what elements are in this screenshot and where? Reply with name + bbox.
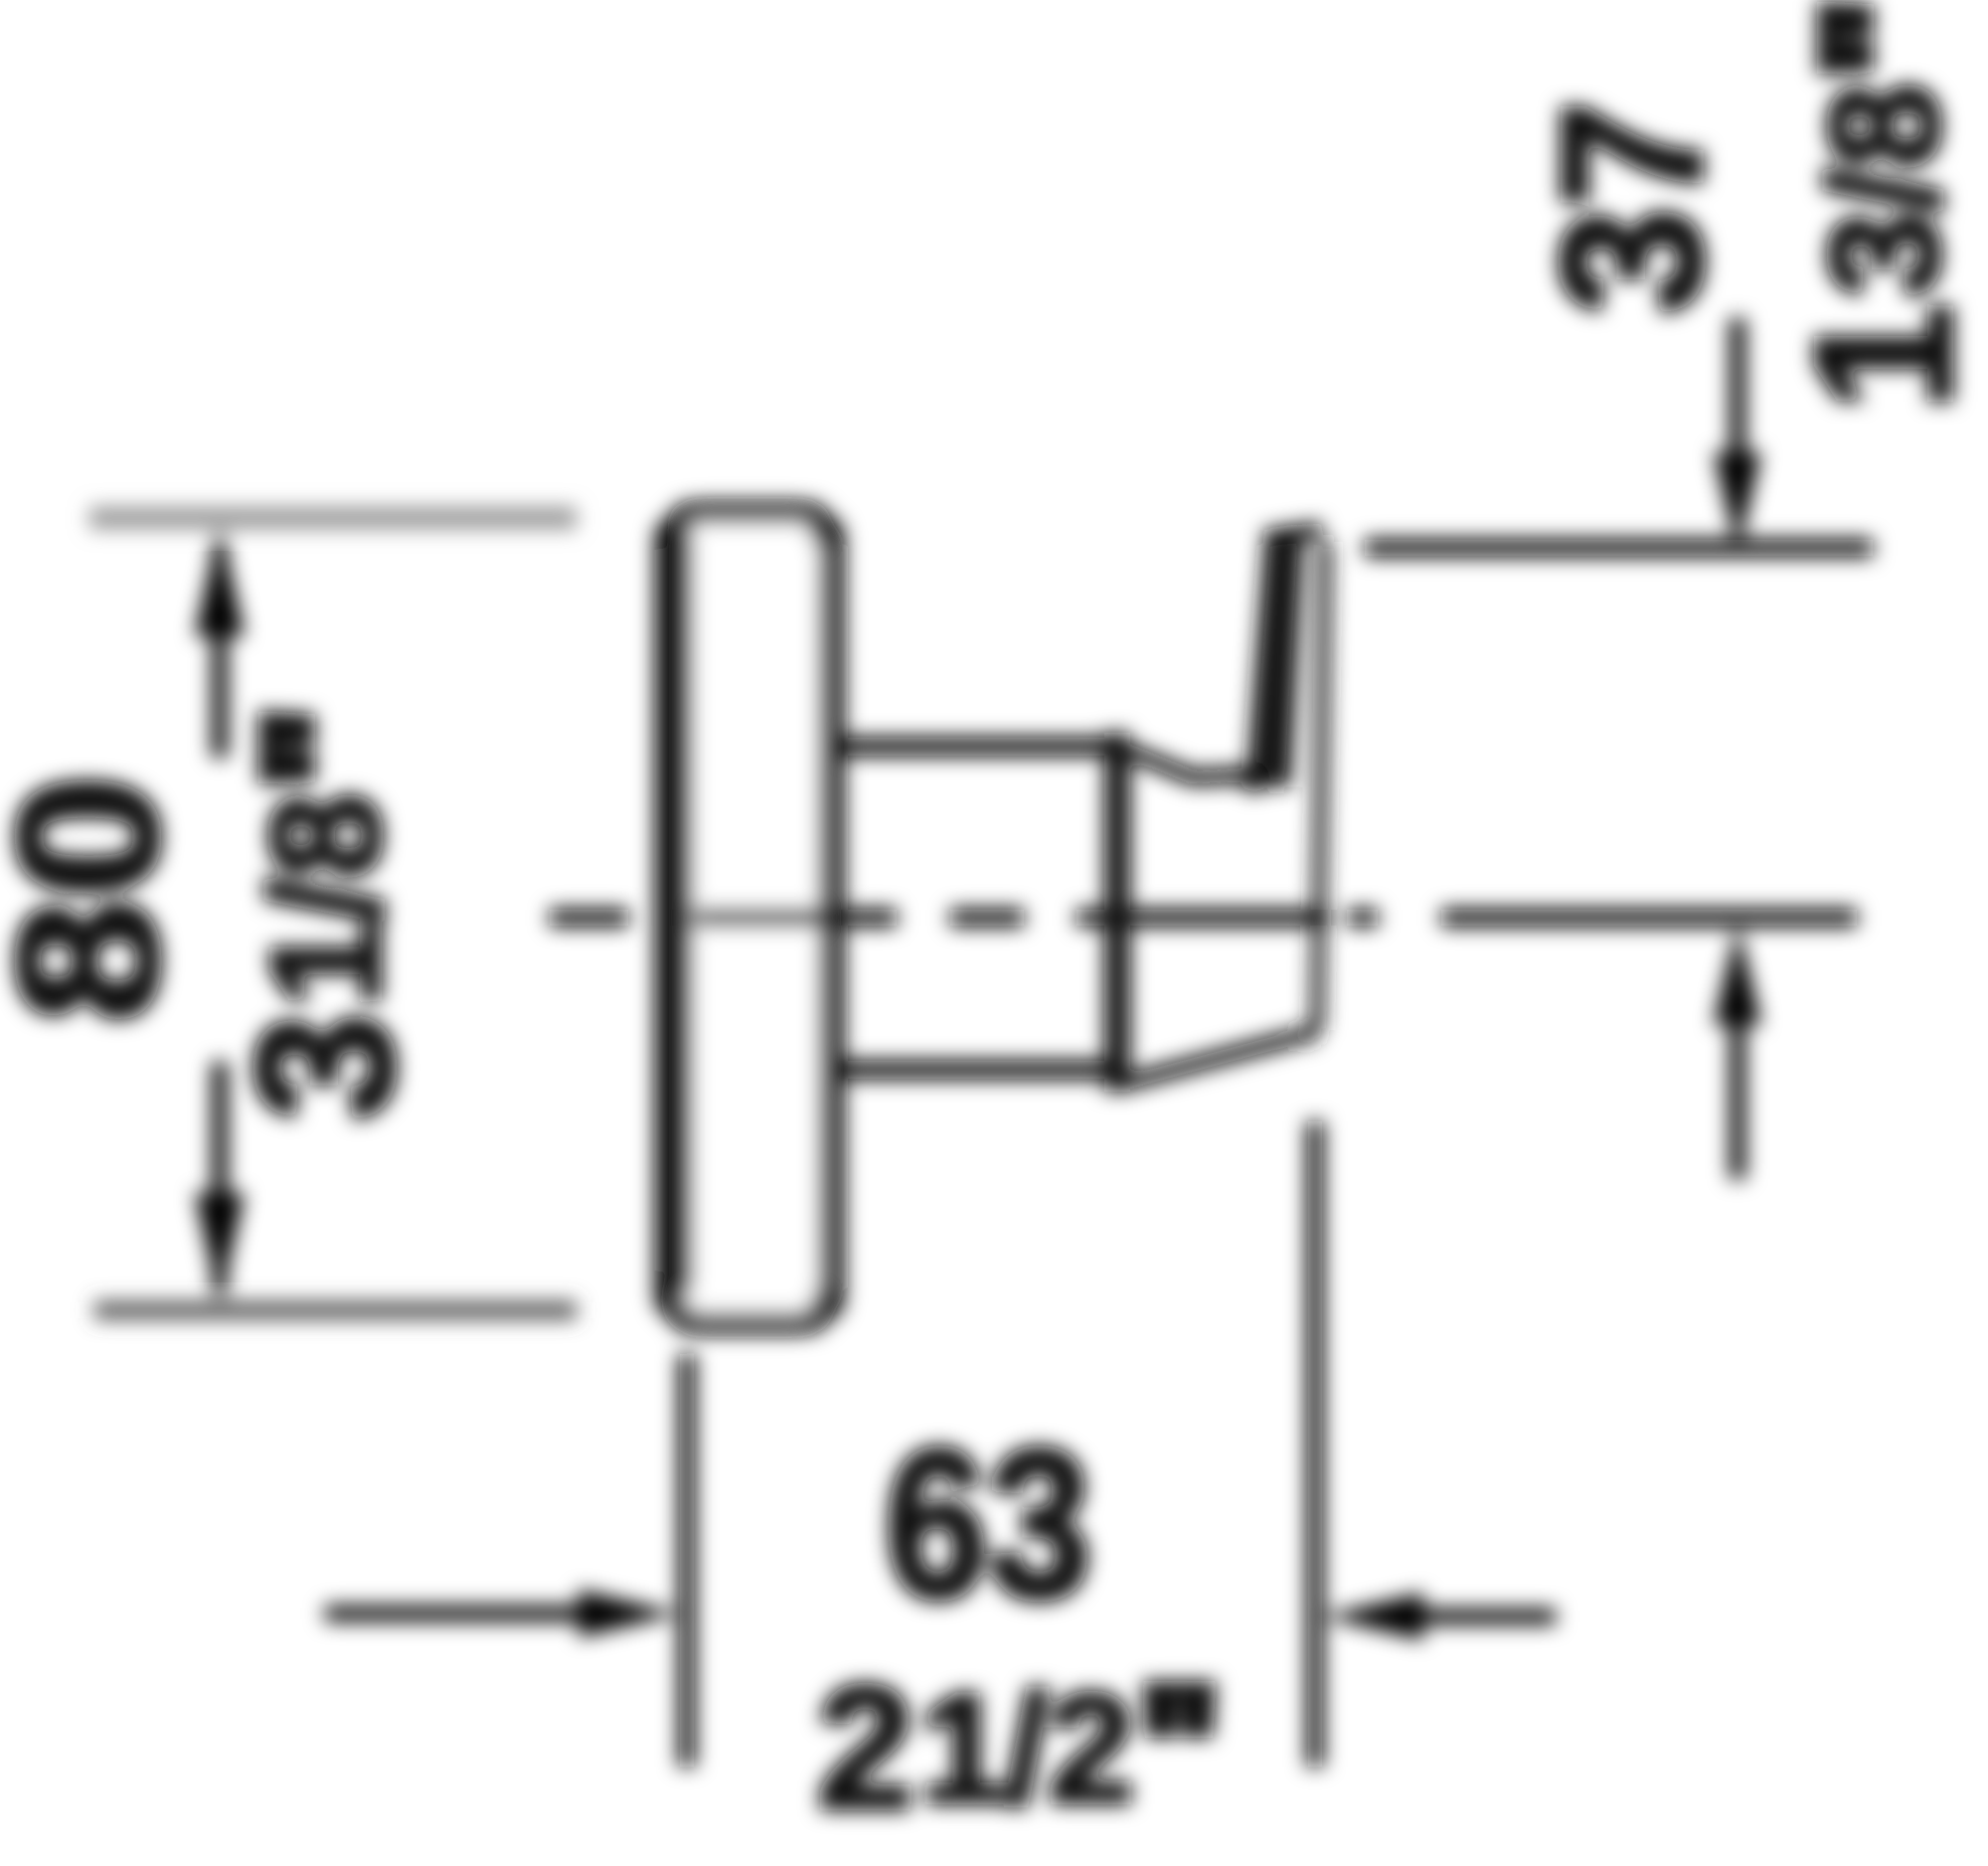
dimension 80 lower arrow stem xyxy=(212,1062,228,1292)
svg-text:21/2": 21/2" xyxy=(817,1651,1221,1845)
stem-plate junction dots xyxy=(832,736,854,758)
plate chamfer corners xyxy=(696,501,803,523)
dimension 37 reference line (top of lever) xyxy=(1365,539,1873,557)
dimension 63 left arrow stem xyxy=(325,1606,591,1621)
svg-text:13/8": 13/8" xyxy=(1775,0,1988,411)
plate rear face edge xyxy=(819,527,838,1310)
body bottom edge xyxy=(1130,1037,1297,1082)
lever-body junction blob xyxy=(1240,763,1269,792)
escutcheon plate (side view) xyxy=(664,512,835,1323)
reference line top-left (upper extension of 80 dim) xyxy=(89,507,577,529)
body front edge (thick vertical) xyxy=(1104,733,1130,1092)
lever top cap xyxy=(1264,530,1322,538)
plate front face thick edge xyxy=(667,532,693,1289)
dimension 63 right arrowhead (left) xyxy=(1322,1593,1423,1640)
svg-text:63: 63 xyxy=(885,1406,1091,1642)
svg-text:80: 80 xyxy=(0,774,200,1023)
dimension 63 right extension line xyxy=(1307,1121,1324,1767)
dimension 80 upper arrow stem xyxy=(212,542,228,758)
dimension 63 right arrow stem xyxy=(1423,1609,1556,1624)
valve body stem bottom line xyxy=(840,1061,1113,1080)
svg-text:37: 37 xyxy=(1522,101,1743,315)
dimension 80 lower arrowhead xyxy=(195,1193,245,1304)
body top edge xyxy=(1130,752,1254,777)
dimension 63 left extension line xyxy=(679,1354,696,1767)
handle right edge xyxy=(1317,542,1325,1030)
dimension 63 left arrowhead (right) xyxy=(579,1590,680,1637)
centerline dash-dot xyxy=(550,909,1857,927)
dimension 37 lower arrowhead (up) xyxy=(1714,924,1761,1025)
valve body stem top line xyxy=(840,738,1113,757)
body bottom right corner xyxy=(1297,1031,1316,1037)
svg-text:31/8": 31/8" xyxy=(217,707,433,1121)
dimension 37 upper arrowhead (down) xyxy=(1714,452,1761,554)
dimension 37 lower arrow stem xyxy=(1730,1024,1745,1179)
dimension 37 upper arrow stem xyxy=(1730,318,1745,467)
stem-front edge junction dots xyxy=(1098,735,1122,759)
lever handle (dark) xyxy=(1246,530,1304,787)
dimension 80 upper arrowhead xyxy=(195,524,245,636)
reference line bottom-left (lower extension of 80 dim) xyxy=(94,1301,577,1319)
